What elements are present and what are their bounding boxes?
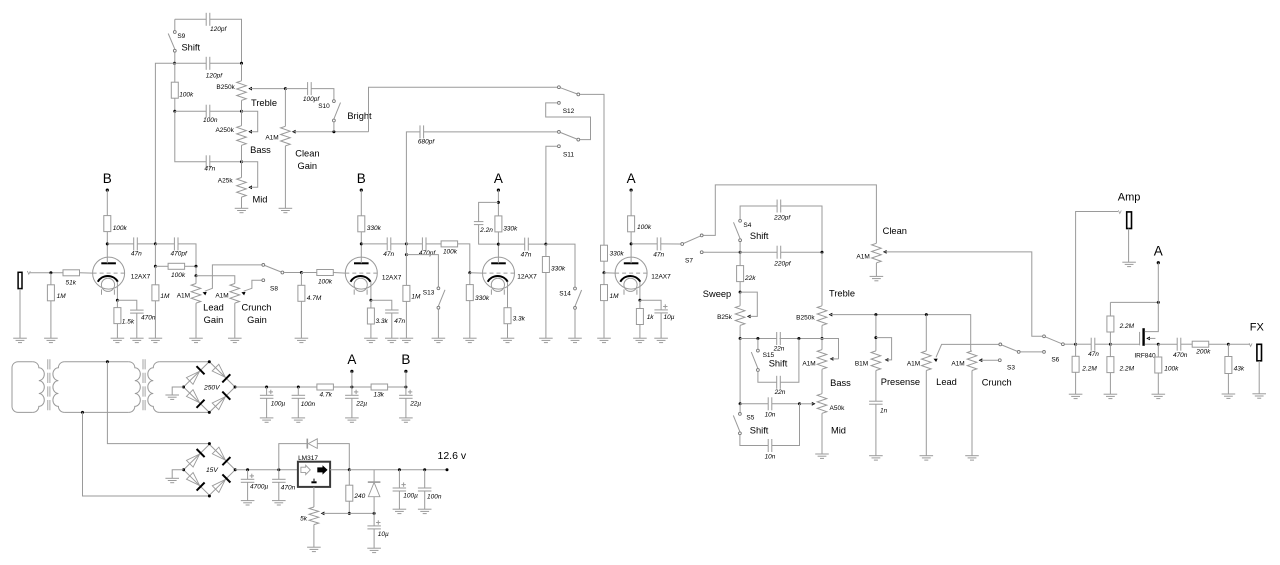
switch S12: [558, 86, 580, 96]
wiper clean gain wiper: [292, 130, 369, 134]
wire 4.7k to A node: [334, 386, 372, 388]
label A1M clean gain value: [265, 134, 278, 141]
svg-text:S7: S7: [685, 258, 693, 265]
ground 22u A ground: [345, 418, 359, 422]
label 22u A value: [355, 401, 367, 408]
wire 1M V2 ground lead: [405, 301, 407, 338]
label Lead 2 label: [936, 377, 957, 387]
svg-text:10n: 10n: [765, 453, 776, 460]
svg-text:Bass: Bass: [830, 378, 851, 388]
label 200k value: [1195, 348, 1211, 355]
jack FX jack: [1257, 344, 1262, 361]
wire bridge1 neg to ground: [172, 387, 183, 395]
node junction n3: [173, 110, 176, 113]
resistor R 100k tone: [171, 82, 178, 98]
wiper crunch gain wiper: [241, 280, 261, 295]
label 1M V2 value: [411, 293, 421, 300]
wire V2 out to 47n: [361, 243, 387, 245]
node B supply V1: [103, 171, 112, 192]
wire V2 cathode lead: [370, 282, 372, 301]
label A1M bass value: [802, 360, 815, 367]
svg-text:Shift: Shift: [181, 43, 200, 53]
wire 3.3k V2 top lead: [370, 300, 372, 308]
label A50k value: [830, 405, 846, 412]
wire row1 wire b: [780, 339, 839, 359]
svg-text:220pf: 220pf: [773, 260, 791, 267]
svg-text:S13: S13: [423, 289, 435, 296]
label Bass 2 label: [830, 378, 851, 388]
label 22n-b value: [774, 389, 786, 396]
resistor R 22k: [737, 266, 744, 282]
capacitor C 470n cathode: [130, 310, 144, 313]
label 680pf value: [418, 139, 435, 146]
ground bridge2 ground: [165, 478, 179, 482]
svg-text:680pf: 680pf: [418, 139, 435, 146]
wire 43k ground lead: [1227, 374, 1229, 395]
svg-text:100k: 100k: [637, 224, 652, 231]
svg-text:A50k: A50k: [830, 405, 846, 412]
wire mid2 ground lead: [821, 413, 823, 454]
svg-text:2.2n: 2.2n: [479, 227, 493, 234]
wire treble pot bottom lead: [241, 100, 243, 111]
svg-text:A1M: A1M: [265, 134, 278, 141]
node junction n39: [348, 468, 351, 471]
label Treble 2 label: [829, 289, 855, 299]
ground 330k V3 grid ground: [463, 338, 477, 342]
wire V4 grid wire: [604, 272, 615, 274]
wire diode2 top lead: [373, 470, 375, 482]
svg-text:47n: 47n: [521, 252, 532, 259]
label S8 ref: [270, 285, 278, 292]
potentiometer Bass A250k: [237, 126, 247, 146]
switch contact S3 lower contact: [998, 359, 1001, 362]
svg-text:B: B: [357, 171, 366, 186]
wire 470n to 200k: [1181, 343, 1192, 345]
wire S15 loop: [758, 372, 777, 383]
switch contact S11 lower contact: [558, 145, 561, 148]
ground FX jack ground: [1252, 394, 1266, 398]
svg-text:LM317: LM317: [298, 455, 318, 462]
svg-text:Shift: Shift: [750, 426, 769, 436]
wire drop to 47n row: [175, 111, 206, 162]
label Crunch label: [242, 302, 272, 312]
wire 100u psu lead: [266, 387, 268, 395]
capacitor C-120pf-b: [206, 57, 210, 70]
node A supply psu: [347, 352, 356, 373]
wire 2.2M in top lead: [1075, 344, 1077, 356]
node junction T top tap: [106, 360, 109, 363]
wire 330k bleed ground lead: [545, 273, 547, 339]
svg-text:B: B: [103, 171, 112, 186]
ground 3.3k V3 ground: [501, 338, 515, 342]
wire 10u ground lead: [660, 313, 662, 338]
ground 10u psu ground: [367, 548, 381, 552]
resistor R 2.2M gate: [1107, 357, 1114, 373]
svg-text:47n: 47n: [383, 251, 394, 258]
node junction n27: [874, 313, 877, 316]
capacitor C 2.2n: [474, 222, 484, 225]
wire 330k V4 to grid node: [603, 261, 605, 273]
svg-text:47n: 47n: [131, 251, 142, 258]
wire 22u B lead: [405, 387, 407, 395]
wire 3.3k V3 ground lead: [507, 324, 509, 339]
capacitor C 1n: [869, 401, 883, 404]
node junction V4 plate: [630, 242, 633, 245]
wire V1 plate resistor top lead: [106, 190, 108, 216]
switch S11: [558, 131, 580, 142]
label 3.3k V2 value: [376, 318, 389, 325]
wire 330k bleed top lead: [545, 244, 547, 256]
wire 22k top lead: [739, 252, 741, 265]
wire branch to V1 output: [155, 63, 174, 244]
wire mid pot bottom lead: [241, 197, 243, 208]
capacitor C-220pf-a: [777, 200, 781, 213]
label A1M crunch gain value: [215, 292, 228, 299]
svg-text:470pf: 470pf: [419, 250, 436, 257]
svg-text:12AX7: 12AX7: [131, 273, 151, 280]
label B25k value: [717, 314, 733, 321]
svg-text:200k: 200k: [1195, 348, 1211, 355]
svg-text:Mid: Mid: [253, 195, 268, 205]
node junction B rail: [404, 386, 407, 389]
node A supply output: [1154, 244, 1163, 265]
capacitor C-100pf bright: [308, 82, 312, 95]
wire V3 out to 47n: [498, 243, 524, 245]
label V3 name: [517, 274, 537, 281]
svg-text:100µ: 100µ: [271, 401, 286, 408]
potentiometer Clean A1M 2: [872, 243, 882, 263]
wire S7 up to clean pot: [703, 185, 876, 243]
wire row2 wire: [740, 403, 768, 405]
wire treble2 bottom lead: [821, 325, 823, 338]
svg-text:330k: 330k: [551, 266, 566, 273]
svg-text:A: A: [1154, 244, 1163, 259]
wire sweep pot bottom lead: [739, 325, 741, 338]
svg-text:A1M: A1M: [802, 360, 815, 367]
potentiometer Mid A25k: [237, 178, 247, 198]
wire 47n V3 to n16: [528, 243, 546, 245]
wire 2.2M bias top: [1109, 302, 1111, 316]
node junction n12: [300, 271, 303, 274]
wire 100k tone top lead: [174, 63, 176, 82]
svg-text:S11: S11: [563, 152, 574, 159]
label 47n V2 cathode value: [394, 318, 405, 325]
wire row1 to row2 drop: [739, 339, 741, 404]
wiper sweep wiper bracket: [740, 292, 757, 318]
node junction bridge2 right: [234, 468, 237, 471]
label 100k V4 plate value: [637, 224, 652, 231]
wire row 47n right: [210, 161, 242, 163]
ground S13 ground: [432, 338, 446, 342]
wire 2.2M gate gnd top lead: [1109, 344, 1111, 356]
ground 1k ground: [633, 338, 647, 342]
label IRF840 label: [1134, 353, 1156, 360]
switch S9: [168, 31, 176, 52]
wire 100k V2 out to V3 grid: [458, 244, 470, 273]
label A250k value: [215, 127, 234, 134]
capacitor C-22n-a: [777, 332, 781, 345]
wire protection diode run: [279, 444, 307, 470]
resistor R 1M input: [47, 285, 54, 301]
wire V1 out to 47n: [107, 243, 133, 245]
node junction V1 plate: [106, 242, 109, 245]
wire S5 feed: [739, 404, 741, 412]
wire T2 sec to bridge1 bottom: [159, 411, 209, 413]
label Crunch Gain label: [247, 315, 267, 325]
svg-text:IRF840: IRF840: [1134, 353, 1156, 360]
wire V4 plate lead: [630, 232, 632, 263]
wire 100u out lead: [398, 470, 400, 488]
resistor R 13k: [371, 384, 388, 390]
wire 100k grid to V2: [333, 272, 345, 275]
wire crunch pot feed: [196, 276, 235, 284]
label Bass label: [250, 145, 271, 155]
node junction n4: [240, 110, 243, 113]
label 1.5k value: [122, 319, 135, 326]
svg-text:12AX7: 12AX7: [517, 274, 537, 281]
wire n8 to 470pf: [155, 243, 174, 245]
wire n10 drop: [195, 266, 197, 275]
svg-text:Mid: Mid: [831, 425, 846, 435]
wire bridge2 neg to ground: [172, 470, 183, 479]
svg-text:470n: 470n: [281, 485, 296, 492]
label 10n-b value: [765, 453, 776, 460]
label Mid 2 label: [831, 425, 846, 435]
node junction V3 plate: [497, 243, 500, 246]
label 12.6v label: [437, 450, 466, 462]
resistor R 100k load: [1155, 357, 1162, 373]
capacitor C 47n V1 out: [134, 237, 138, 250]
resistor R 43k: [1225, 357, 1232, 374]
label 1M V4 value: [610, 293, 620, 300]
label 330k V4 grid value: [610, 251, 625, 258]
wiper presense wiper bracket: [876, 338, 892, 362]
potentiometer Bass A1M 2: [817, 350, 827, 370]
wire 22k bottom lead: [739, 282, 741, 293]
node junction n37: [246, 468, 249, 471]
label Lead Gain label: [204, 315, 224, 325]
wiper bass wiper bracket: [242, 111, 258, 133]
label B250k 2 value: [796, 314, 815, 321]
label 120pf-b value: [206, 72, 223, 79]
label Shift S15 label: [769, 359, 788, 369]
wire S11 lower to V3 out: [546, 146, 557, 244]
node junction n21: [739, 337, 742, 340]
svg-text:1M: 1M: [610, 293, 620, 300]
label Sweep label: [703, 289, 731, 299]
ground 100k load ground: [1152, 394, 1166, 398]
svg-text:S4: S4: [743, 222, 751, 229]
svg-text:A25k: A25k: [218, 177, 234, 184]
resistor R 200k: [1192, 341, 1209, 347]
svg-text:240: 240: [353, 493, 365, 500]
ground 100u psu ground: [260, 418, 274, 422]
node junction bridge1 left: [182, 386, 185, 389]
svg-text:22n: 22n: [774, 389, 786, 396]
wire tonestack1 top rail left: [175, 18, 206, 20]
svg-text:100n: 100n: [427, 493, 442, 500]
label Shift S5 label: [750, 426, 769, 436]
wire 1M mix ground lead: [154, 301, 156, 338]
capacitor C-100n tone: [206, 105, 210, 118]
wire n13 to n14: [405, 244, 407, 255]
wiper bass2 wiper tie: [830, 357, 839, 361]
wire S9 lower lead: [174, 52, 176, 63]
wire 47n to n8: [137, 243, 155, 245]
node junction A rail: [350, 386, 353, 389]
wire 22u A lead: [351, 387, 353, 395]
wire 2.2M bias bottom: [1109, 332, 1111, 344]
wire treble pot top lead: [241, 63, 243, 81]
svg-text:S10: S10: [318, 103, 330, 110]
capacitor C 100n out: [418, 488, 432, 491]
svg-text:Clean: Clean: [295, 149, 319, 159]
capacitor C 47n V2 cathode: [385, 310, 399, 313]
wiper lead2 wiper: [934, 344, 999, 362]
switch contact S12 lower contact: [558, 102, 561, 105]
wire diode2 bottom lead: [373, 497, 375, 514]
wire 2.2n branch bottom: [479, 225, 499, 245]
resistor R 100k V2 grid: [317, 270, 334, 276]
label 47n V3 value: [521, 252, 532, 259]
wire 100u psu ground lead: [266, 398, 268, 418]
capacitor C 22u B: [399, 390, 413, 399]
node junction T bottom tap: [81, 411, 84, 414]
wire V2 plate lead: [360, 232, 362, 263]
switch contact S8 lower contact: [262, 279, 265, 282]
label 100k V1 plate value: [113, 225, 128, 232]
wire 330k V3 grid ground lead: [469, 301, 471, 339]
label 330k V3 grid value: [475, 295, 490, 302]
capacitor C 100n psu: [292, 395, 306, 398]
winding T2 primary: [129, 362, 141, 413]
wire FX jack ground lead: [1258, 361, 1260, 394]
label 100k tone value: [179, 91, 194, 98]
node junction bridge1 bottom: [208, 411, 211, 414]
label 240 value: [353, 493, 365, 500]
wiper treble wiper: [248, 87, 285, 91]
node junction n7: [332, 130, 335, 133]
wire 470n psu ground lead: [278, 482, 280, 500]
wire 22n-b up: [780, 339, 799, 383]
capacitor C-10n-b: [768, 439, 772, 452]
label 10u psu value: [378, 531, 389, 538]
wire 220pf-b to column: [781, 251, 822, 253]
svg-text:A250k: A250k: [215, 127, 234, 134]
svg-text:Gain: Gain: [297, 161, 317, 171]
capacitor C 470pf V2: [422, 237, 426, 250]
wire LM317 adj lead: [313, 487, 315, 507]
wire A to drain node: [1157, 263, 1159, 303]
svg-text:1M: 1M: [411, 293, 421, 300]
wire row1 wire: [740, 338, 777, 340]
potentiometer Treble B250k 2: [817, 306, 827, 326]
label S4 ref: [743, 222, 751, 229]
wire 330k V4 grid from S12: [603, 244, 605, 246]
svg-text:100n: 100n: [301, 401, 316, 408]
ground 100n out ground: [418, 509, 432, 513]
wire presense to 1n: [875, 371, 877, 402]
label 100n psu value: [301, 401, 316, 408]
node junction V4 grid: [603, 271, 606, 274]
wire presense top lead: [875, 315, 877, 351]
wire clean gain top lead: [284, 89, 286, 127]
resistor R 100k mix: [168, 263, 185, 269]
label 47n tone value: [204, 166, 215, 173]
node junction n17 V3 grid: [468, 271, 471, 274]
svg-text:15V: 15V: [206, 467, 218, 474]
wire n16 to S14: [546, 244, 575, 287]
ground 1M mix ground: [149, 338, 163, 342]
node junction n2: [240, 62, 243, 65]
label 120pf-a value: [210, 26, 227, 33]
label A25k value: [218, 177, 234, 184]
ground 47n cathode ground: [385, 338, 399, 342]
svg-text:10µ: 10µ: [664, 314, 675, 321]
ground 470n ground: [130, 338, 144, 342]
node junction n41: [373, 512, 376, 515]
svg-text:FX: FX: [1250, 322, 1265, 334]
wire B+ rail: [235, 386, 317, 388]
node junction n30: [1074, 343, 1077, 346]
wire row to 220pf-b: [740, 251, 777, 253]
capacitor C 47n V2 out: [387, 237, 391, 250]
label 470pf V1 value: [171, 251, 188, 258]
label 100u out value: [403, 493, 418, 500]
svg-text:47n: 47n: [1088, 351, 1099, 358]
svg-text:1M: 1M: [160, 293, 170, 300]
wire 1n ground lead: [875, 404, 877, 456]
label 1M input value: [57, 293, 67, 300]
wire S3 pole to S6: [1020, 351, 1042, 353]
svg-text:Lead: Lead: [203, 302, 224, 312]
capacitor C 47n V3 out: [525, 238, 529, 251]
ground S14 ground: [568, 338, 582, 342]
label 4.7k value: [320, 392, 333, 399]
node junction V4 cathode: [638, 299, 641, 302]
transistor Q1 IRF840: [1140, 302, 1159, 345]
label Amp label: [1118, 191, 1141, 203]
wire 13k to B node: [388, 386, 406, 388]
resistor R 2.2M in: [1072, 356, 1079, 372]
svg-text:B250k: B250k: [796, 314, 815, 321]
wire bass2 to mid: [821, 369, 823, 394]
switch S3: [999, 343, 1020, 353]
wire 1.5k ground lead: [116, 324, 118, 339]
label 10u value: [664, 314, 675, 321]
svg-text:Sweep: Sweep: [703, 289, 731, 299]
label Lead label: [203, 302, 224, 312]
wire clean wiper riser: [369, 87, 558, 132]
wire V4 out to 47n: [631, 243, 657, 245]
ground clean2 ground: [870, 276, 884, 280]
resistor R 4.7k: [317, 384, 334, 390]
regulator U2 LM317: [298, 462, 330, 487]
label 100u psu value: [271, 401, 286, 408]
capacitor C 100u out: [393, 482, 407, 491]
switch S4: [734, 219, 742, 241]
transformer core T2 core: [143, 359, 145, 413]
wire source to 470n: [1158, 343, 1177, 345]
wire V1 plate lead: [106, 232, 108, 264]
wire mid pot top lead: [241, 162, 243, 178]
svg-text:12AX7: 12AX7: [651, 274, 671, 281]
wire 330k V3 grid top lead: [469, 273, 471, 285]
wire gate lead: [1110, 343, 1139, 345]
ground 2.2M gate ground: [1104, 394, 1118, 398]
label 2.2M in value: [1081, 365, 1097, 372]
label S11 ref: [563, 152, 574, 159]
